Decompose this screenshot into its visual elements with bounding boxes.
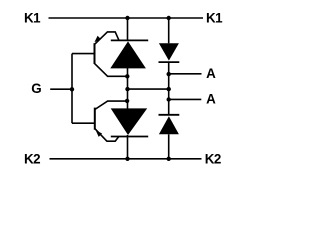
node: top rail x right column junction [167,16,171,20]
wire: Q2 collector lead [95,101,128,109]
wire: Q2 base lead [72,122,95,124]
svg-text:K2: K2 [205,151,221,166]
wire: top K1 rail [49,17,204,19]
wire: D4 anode down to K2 rail [168,134,170,159]
wire: right column between A nodes [168,74,170,99]
node: top rail x middle column junction [125,16,129,20]
wire: bottom K2 rail [50,158,202,160]
wire: D3 cathode down to node A1 [168,62,170,74]
wire: node A2 down to D4 cathode [168,100,170,115]
svg-text:K2: K2 [24,151,40,166]
svg-text:K1: K1 [24,11,41,26]
wire: right column drop from K1 rail [168,18,170,43]
svg-text:K1: K1 [206,11,223,26]
diode D4 (lower right, conducts upward, cathode bar at top) [159,115,180,135]
node: right column x cross-link junction [167,87,171,91]
wire: Q1 base lead [72,53,95,55]
node: anode A2 junction [167,97,171,101]
wire: common gate bus vertical [71,54,73,124]
wire: gate lead from G [50,88,72,90]
svg-text:A: A [206,92,216,107]
wire: cross link middle column to right column [128,88,169,90]
wire: Q1 collector lead [95,64,128,77]
diode D2 (middle bottom, conducts downward, cathode bar at bottom) [111,108,149,136]
transistor Q2 (lower PNP, emitter to D2 cathode) [95,108,119,142]
wire: middle column drop from K1 rail to D1 cathode [127,18,129,40]
node: middle column x cross-link junction [125,87,129,91]
diode D3 (upper right, conducts downward) [159,43,180,62]
diode D1 (middle top, conducts upward, cathode bar at top) [110,40,148,68]
svg-text:G: G [31,81,41,96]
wire: stub to terminal A (lower) [169,98,202,100]
wire: middle column D1 anode down to D2 anode [127,68,129,109]
node: gate junction [70,87,74,91]
node: bottom rail x right column junction [167,157,171,161]
node: bottom rail x middle column junction [125,157,129,161]
node: D2 anode / Q2 collector junction [125,99,129,103]
transistor Q1 (upper PNP, emitter to D1 cathode) [94,32,118,64]
svg-text:A: A [206,66,216,81]
node: D1 anode / Q1 collector junction [125,74,129,78]
node: anode A1 junction [167,72,171,76]
wire: stub to terminal A (upper) [169,73,202,75]
wire: middle column D2 cathode to K2 rail [127,135,129,159]
